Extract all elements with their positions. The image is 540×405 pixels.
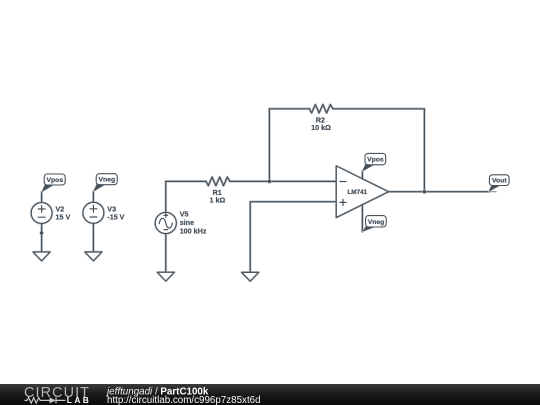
- svg-text:LAB: LAB: [67, 395, 91, 405]
- svg-text:-15 V: -15 V: [107, 213, 124, 222]
- svg-text:http://circuitlab.com/c996p7z8: http://circuitlab.com/c996p7z85xt6d: [107, 395, 261, 405]
- svg-text:100 kHz: 100 kHz: [180, 226, 207, 235]
- svg-text:Vpos: Vpos: [46, 177, 63, 184]
- svg-text:10 kΩ: 10 kΩ: [311, 123, 331, 132]
- svg-text:Vneg: Vneg: [368, 219, 385, 226]
- svg-text:Vout: Vout: [492, 178, 507, 185]
- svg-text:1 kΩ: 1 kΩ: [210, 196, 226, 205]
- svg-text:LM741: LM741: [347, 189, 367, 196]
- svg-text:15 V: 15 V: [56, 213, 71, 222]
- svg-text:Vpos: Vpos: [367, 157, 384, 164]
- svg-text:Vneg: Vneg: [98, 177, 115, 184]
